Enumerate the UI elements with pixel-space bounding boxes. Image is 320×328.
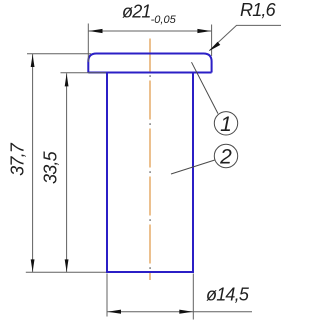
body (cylinder) outline <box>107 73 193 273</box>
extension line right of dia21 <box>211 25 213 57</box>
dimension line dia21 <box>88 30 211 32</box>
arrow R1,6 <box>209 42 221 52</box>
extension line top of 33,5 <box>61 72 107 74</box>
balloon circle 2 <box>214 144 237 167</box>
svg-text:1: 1 <box>220 113 232 136</box>
extension line left of dia14,5 <box>106 274 108 317</box>
arrow 33,5 top <box>65 74 69 87</box>
extension line right of dia14,5 <box>192 274 194 320</box>
arrow 37,7 bottom <box>31 259 35 272</box>
svg-text:37,7: 37,7 <box>8 142 28 176</box>
balloon circle 1 <box>214 112 237 135</box>
arrow dia14,5 right <box>179 310 193 314</box>
leader balloon 1 <box>192 62 219 113</box>
centerline (axis, dash-dot) <box>149 39 151 281</box>
dimension line 33,5 <box>66 73 68 272</box>
flange (head) outline <box>88 54 211 73</box>
dimension line dia14,5 <box>107 311 252 313</box>
svg-text:33,5: 33,5 <box>41 150 61 184</box>
extension line top of 37,7 <box>27 53 91 55</box>
dimension line 37,7 <box>32 54 34 272</box>
svg-text:R1,6: R1,6 <box>240 0 277 20</box>
centerline dots <box>149 75 151 269</box>
arrow dia14,5 left <box>108 310 122 314</box>
svg-text:2: 2 <box>219 146 232 169</box>
shared bottom extension line <box>26 271 106 273</box>
arrow dia21 right <box>197 29 211 33</box>
arrow 33,5 bottom <box>65 259 69 272</box>
arrow 37,7 top <box>31 54 35 67</box>
arrow dia21 left <box>89 29 103 33</box>
leader R1,6 <box>210 25 282 50</box>
extension line left of dia21 <box>87 24 89 63</box>
svg-text:ø14,5: ø14,5 <box>206 285 250 305</box>
leader balloon 2 <box>171 160 215 174</box>
